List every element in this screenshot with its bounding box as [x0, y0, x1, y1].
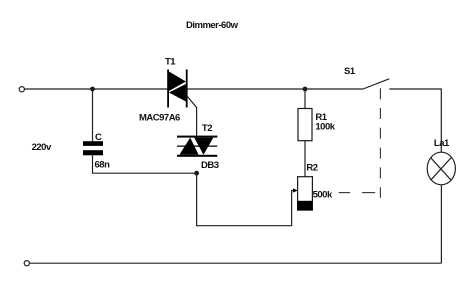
wire: junction down to capacitor [92, 89, 94, 141]
wiper arrow of R2 [293, 188, 298, 192]
diac T2 (DB3) [177, 136, 217, 157]
lamp La1 [427, 152, 455, 185]
capacitor C1 plates [83, 141, 103, 146]
svg-text:S1: S1 [344, 66, 356, 77]
svg-text:MAC97A6: MAC97A6 [139, 112, 180, 123]
svg-text:Dimmer-60w: Dimmer-60w [186, 20, 239, 31]
wire: triac to switch with junction [188, 88, 363, 90]
svg-text:500k: 500k [313, 189, 333, 200]
svg-text:T2: T2 [202, 123, 212, 134]
wire: diac node down, right, up to pot wiper [197, 173, 294, 226]
svg-text:T1: T1 [165, 57, 176, 68]
svg-text:220v: 220v [32, 142, 52, 153]
wire bottom [29, 262, 441, 264]
svg-text:100k: 100k [315, 121, 335, 132]
node junction below diac [194, 171, 199, 176]
wire: R1 to R2 [304, 141, 306, 177]
wire: capacitor down then right to diac node [93, 155, 197, 173]
wire: junction down to R1 [304, 89, 306, 109]
triac T1 (MAC97A6) [167, 70, 187, 108]
wire top: terminal to triac T1 [24, 88, 167, 90]
node junction (cap tap) [90, 87, 95, 92]
svg-text:DB3: DB3 [201, 160, 219, 171]
wire: switch to right edge and down to lamp [389, 89, 441, 152]
svg-text:La1: La1 [434, 138, 450, 149]
terminal top-left [19, 87, 24, 92]
wire: lamp down to bottom wire [440, 185, 442, 263]
dashed link switch to pot (horizontal) [339, 192, 350, 194]
potentiometer R2 body [298, 177, 313, 210]
svg-text:68n: 68n [95, 160, 111, 171]
resistor R1 [298, 109, 312, 141]
terminal bottom-left [24, 261, 29, 266]
wire gate of T1 down to diac [187, 96, 197, 136]
switch S1 blade [363, 79, 389, 89]
dashed link switch to pot (vertical) [379, 88, 381, 198]
node junction (R1 tap) [303, 87, 308, 92]
svg-text:R2: R2 [306, 162, 317, 173]
svg-text:C: C [95, 132, 102, 143]
